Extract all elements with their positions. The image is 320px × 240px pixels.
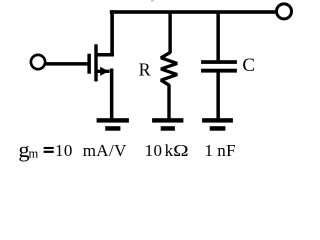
output terminal circle bbox=[277, 4, 292, 19]
wire: source lead down to ground bbox=[110, 69, 114, 121]
ground (below transistor source) bbox=[97, 118, 129, 131]
ground (below resistor) bbox=[152, 118, 183, 131]
capacitor C top plate bbox=[201, 60, 237, 64]
wire: top rail bbox=[110, 10, 276, 14]
svg-text:C: C bbox=[242, 55, 255, 76]
wire: input gate wire bbox=[46, 62, 89, 66]
transistor Q1 gate bar bbox=[87, 54, 91, 74]
svg-text:10kΩ: 10kΩ bbox=[145, 141, 190, 160]
capacitor C bottom plate bbox=[201, 69, 237, 73]
svg-text:R: R bbox=[139, 60, 151, 80]
wire: capacitor top lead bbox=[216, 12, 220, 60]
transistor Q1 channel bar bbox=[94, 44, 97, 81]
wire: resistor bottom lead bbox=[167, 85, 170, 121]
wire: drain lead up to top rail bbox=[110, 10, 114, 56]
scan speck bbox=[151, 0, 154, 2]
input terminal circle bbox=[31, 55, 45, 69]
wire: resistor top lead bbox=[168, 12, 171, 53]
svg-text:1nF: 1nF bbox=[205, 141, 236, 160]
ground (below capacitor) bbox=[202, 118, 233, 131]
transistor Q1 source arrow bbox=[100, 67, 108, 76]
transistor Q1 source stub bbox=[96, 70, 110, 73]
transistor Q1 drain stub bbox=[96, 53, 114, 57]
wire: capacitor bottom lead bbox=[216, 73, 220, 121]
resistor R zigzag bbox=[161, 52, 177, 86]
